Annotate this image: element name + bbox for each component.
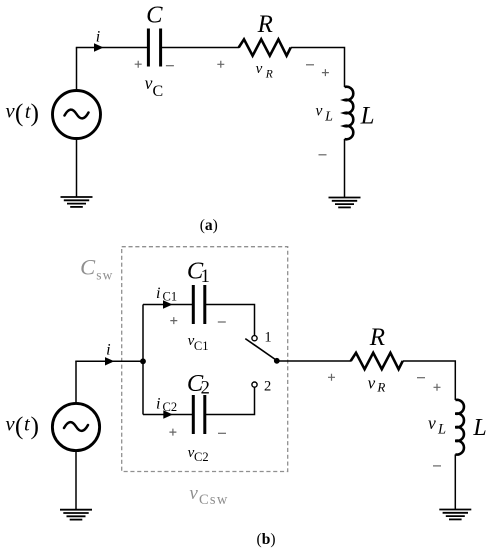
plus sign of vC2 (169, 429, 176, 436)
inductor L (345, 87, 354, 140)
svg-text:L: L (360, 103, 375, 130)
wire C1 to switch contact 1 (205, 305, 255, 336)
ground under inductor (b) (439, 510, 471, 520)
bottom branch wire to C2 (143, 414, 193, 416)
resistor R (239, 39, 291, 55)
svg-text:i: i (156, 396, 160, 413)
dashed box Csw (122, 247, 288, 472)
minus sign of vC2 (218, 432, 226, 434)
plus sign of vR (217, 61, 224, 68)
svg-text:i: i (156, 285, 160, 302)
svg-text:(b): (b) (257, 531, 276, 548)
wire resistor to corner and down (b) (403, 361, 456, 400)
wire C2 to switch contact 2 (205, 387, 255, 414)
svg-text:L: L (324, 110, 333, 125)
svg-text:C: C (152, 83, 163, 100)
svg-text:1: 1 (201, 267, 210, 287)
svg-text:(: ( (15, 98, 24, 127)
wire source bottom to ground (76, 139, 78, 197)
switch contact 2 (252, 382, 257, 387)
sine symbol inside V2 (64, 422, 88, 431)
sine symbol inside V1 (65, 110, 89, 119)
svg-text:R: R (257, 11, 273, 38)
svg-text:C1: C1 (163, 289, 178, 303)
svg-text:2: 2 (201, 379, 210, 399)
current arrow iC2 (163, 410, 173, 418)
svg-text:C: C (146, 2, 163, 29)
wire pole to resistor (277, 360, 351, 362)
inductor L (b) (455, 400, 464, 455)
wire resistor to corner and down (291, 48, 345, 88)
wire inductor to ground (b) (454, 454, 456, 509)
minus sign of vR (b) (417, 377, 425, 379)
vertical branch wire (142, 305, 144, 415)
svg-text:1: 1 (264, 329, 271, 345)
minus sign of vC1 (218, 321, 226, 323)
switch pole dot (274, 358, 280, 364)
wire top rail to capacitor (76, 47, 148, 49)
svg-text:): ) (31, 98, 40, 127)
switch contact 1 (252, 336, 257, 341)
wire inductor to ground (344, 139, 346, 197)
capacitor C (148, 29, 160, 67)
voltage source V2 (52, 403, 99, 450)
plus sign of vC1 (170, 317, 177, 324)
current arrow iC1 (163, 300, 173, 308)
svg-text:C2: C2 (163, 400, 178, 414)
svg-text:(a): (a) (200, 217, 218, 234)
capacitor C1 (193, 285, 205, 324)
current arrow i (b) (105, 357, 114, 365)
svg-text:C: C (80, 255, 96, 280)
plus sign of vR (b) (328, 374, 335, 381)
plus sign of vL (322, 69, 329, 76)
svg-text:C2: C2 (194, 450, 209, 464)
current arrow i (94, 43, 104, 52)
svg-text:i: i (96, 29, 100, 46)
svg-text:R: R (376, 379, 385, 394)
voltage source V1 (53, 91, 101, 139)
minus sign of vR (306, 64, 314, 66)
capacitor C2 (193, 395, 205, 434)
resistor R (b) (351, 353, 403, 369)
svg-text:v: v (315, 103, 322, 120)
svg-text:L: L (472, 415, 486, 441)
svg-text:v: v (256, 61, 263, 77)
svg-text:v: v (189, 483, 198, 504)
input node dot (140, 358, 146, 364)
wire capacitor to resistor (161, 47, 239, 49)
svg-text:(: ( (15, 411, 24, 440)
svg-text:): ) (31, 411, 40, 440)
ground under source (a) (61, 197, 93, 207)
svg-text:v: v (145, 73, 153, 93)
svg-text:C1: C1 (194, 339, 209, 353)
wire to input node (75, 360, 143, 362)
top branch wire to C1 (143, 304, 193, 306)
ground under inductor (a) (329, 198, 361, 208)
ground under source (b) (60, 510, 92, 520)
svg-text:2: 2 (264, 379, 271, 395)
svg-text:v: v (368, 374, 376, 393)
svg-text:R: R (265, 69, 273, 81)
svg-text:R: R (369, 324, 385, 351)
svg-text:i: i (106, 342, 110, 359)
plus sign of vC (135, 61, 142, 68)
wire source bottom to ground (b) (75, 451, 77, 509)
minus sign of vL (319, 154, 327, 156)
switch arm (245, 339, 276, 361)
minus sign of vL (b) (433, 465, 441, 467)
svg-text:Csw: Csw (199, 492, 229, 508)
wire source top to rail (76, 48, 78, 92)
svg-text:L: L (437, 422, 446, 438)
svg-text:v: v (428, 413, 436, 433)
minus sign of vC (166, 65, 174, 67)
plus sign of vL (b) (434, 384, 441, 391)
wire source top to node (75, 361, 77, 404)
svg-text:sw: sw (96, 267, 113, 282)
